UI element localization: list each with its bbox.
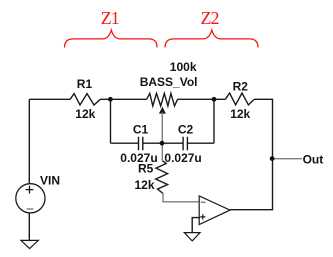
resistor R1 — [70, 94, 100, 105]
svg-text:12k: 12k — [135, 178, 155, 192]
svg-text:Z1: Z1 — [101, 8, 119, 28]
capacitor C1 — [139, 137, 143, 150]
VIN minus marker (gray) — [27, 208, 34, 210]
potentiometer BASS_Vol body — [147, 93, 178, 106]
svg-text:100k: 100k — [170, 60, 197, 74]
op-amp U1 — [199, 196, 230, 225]
wire potentiometer to R2 — [178, 98, 226, 100]
voltage source VIN — [16, 184, 45, 213]
wire R1 to potentiometer — [100, 98, 146, 100]
potentiometer wiper arrowhead — [159, 107, 166, 114]
svg-text:Z2: Z2 — [201, 8, 219, 28]
svg-text:VIN: VIN — [40, 174, 60, 188]
brace Z2 — [165, 30, 258, 47]
wire VIN feed vertical — [28, 99, 30, 184]
svg-text:0.027u: 0.027u — [164, 151, 201, 165]
wire op-amp non-inverting input to ground — [192, 218, 200, 233]
capacitor C2 — [183, 137, 187, 150]
wire capacitor rail right segment — [188, 142, 215, 144]
junction node output — [270, 156, 275, 161]
wire capacitor rail left segment — [111, 142, 139, 144]
op-amp U1 plus marker — [200, 214, 205, 219]
junction node wiper capacitor rail — [160, 141, 165, 146]
svg-text:R5: R5 — [138, 162, 154, 176]
svg-text:12k: 12k — [75, 107, 95, 121]
junction node after R1 — [108, 97, 113, 102]
wire capacitor rail middle segment — [143, 142, 183, 144]
resistor R5 — [156, 161, 168, 194]
resistor R2 — [225, 93, 254, 105]
svg-text:Out: Out — [303, 153, 324, 167]
wire VIN to ground — [28, 213, 30, 240]
VIN plus marker — [26, 186, 34, 194]
wire left branch down to capacitor rail — [110, 99, 112, 143]
wire R5 to op-amp inverting input (gray) — [163, 194, 199, 202]
wire wiper to node (gray) — [161, 113, 163, 161]
junction node before R2 — [212, 97, 217, 102]
svg-text:12k: 12k — [230, 107, 250, 121]
brace Z1 — [65, 30, 158, 47]
ground at op-amp — [184, 233, 200, 241]
wire right branch down to capacitor rail — [213, 99, 215, 143]
wire R2 to output node and down to op-amp output — [230, 99, 273, 209]
svg-text:BASS_Vol: BASS_Vol — [140, 75, 198, 89]
svg-text:C1: C1 — [133, 123, 149, 137]
svg-text:C2: C2 — [178, 123, 194, 137]
svg-text:R2: R2 — [233, 79, 249, 93]
wire main input segment — [29, 98, 70, 100]
op-amp U1 inverting input dash (gray) — [201, 201, 206, 203]
ground at VIN — [21, 240, 38, 248]
svg-text:R1: R1 — [77, 77, 93, 91]
wire output node to Out label (gray) — [274, 158, 302, 160]
